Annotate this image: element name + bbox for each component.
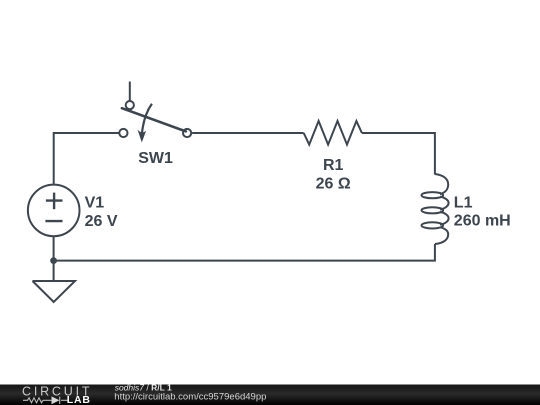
svg-text:26 V: 26 V [85, 213, 118, 230]
V1 minus sign [45, 220, 62, 222]
svg-text:LAB: LAB [67, 394, 91, 405]
inductor L1 loop ellipse 2 [422, 207, 444, 213]
svg-text:R1: R1 [323, 157, 344, 174]
svg-text:26 Ω: 26 Ω [316, 176, 351, 193]
svg-text:V1: V1 [85, 195, 105, 212]
svg-text:SW1: SW1 [138, 150, 173, 167]
logo mini schematic diode [52, 396, 60, 404]
wire bottom [54, 244, 435, 261]
resistor R1 zigzag [304, 121, 362, 145]
wire junction to ground [53, 261, 55, 281]
wire top-left horizontal [54, 133, 119, 185]
switch SW1 left pole circle [119, 129, 127, 137]
inductor L1 loop ellipse 1 [422, 192, 444, 198]
logo mini schematic wire [23, 397, 68, 404]
ground symbol [33, 281, 76, 302]
inductor L1 loop ellipse 3 [422, 222, 444, 228]
wire switch to resistor [192, 132, 304, 134]
switch SW1 blade [122, 108, 186, 131]
inductor L1 coil [435, 174, 449, 244]
switch SW1 right pole circle [183, 129, 191, 137]
switch SW1 actuation arc [142, 104, 152, 134]
switch SW1 throw terminal circle [126, 101, 134, 109]
svg-text:http://circuitlab.com/cc9579e6: http://circuitlab.com/cc9579e6d49pp [114, 391, 266, 402]
voltage source V1 circle [28, 185, 80, 237]
svg-text:260 mH: 260 mH [454, 213, 511, 230]
junction node dot [50, 257, 57, 264]
switch SW1 throw stub [129, 82, 131, 101]
switch SW1 arrowhead [138, 130, 147, 143]
wire V1 bottom to junction [53, 236, 55, 260]
svg-text:L1: L1 [454, 195, 473, 212]
wire resistor to top-right corner [362, 133, 435, 175]
V1 plus sign [46, 193, 63, 210]
